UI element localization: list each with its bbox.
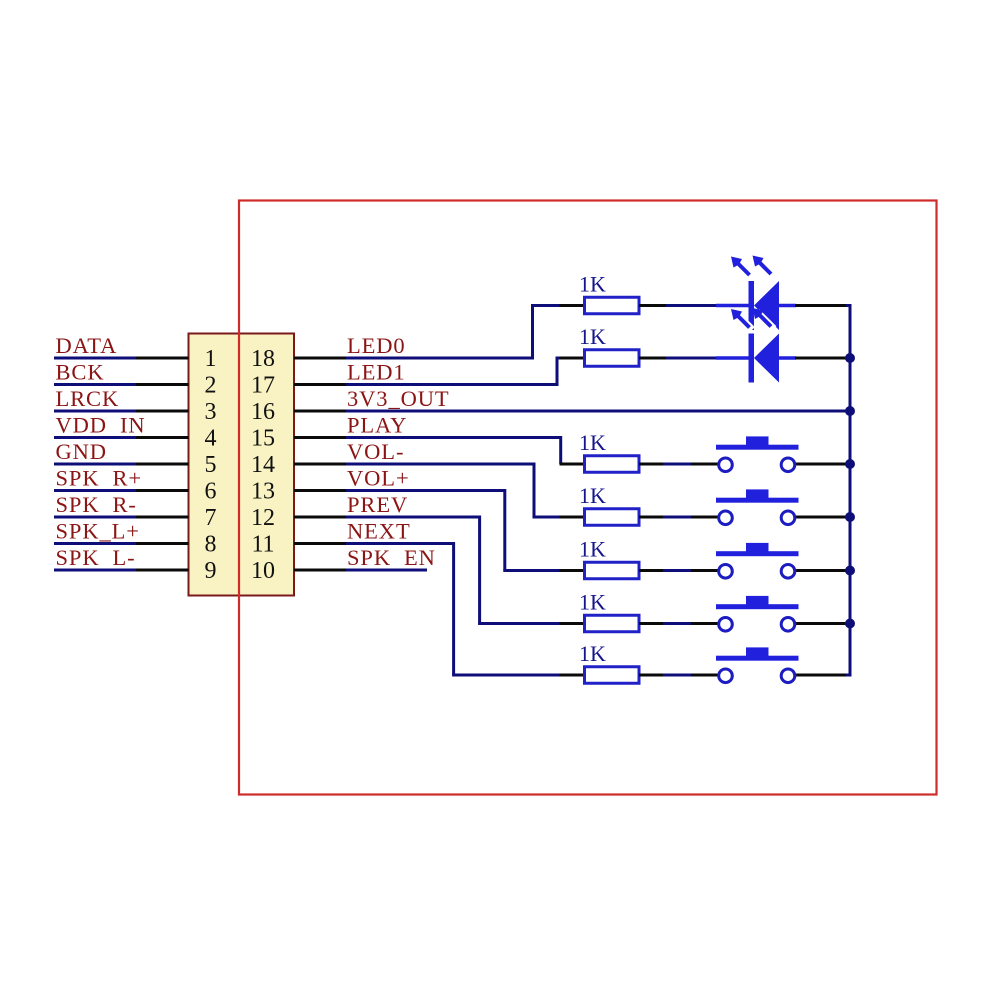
svg-text:DATA: DATA [56, 333, 118, 358]
LED D1 emission arrow 2 [753, 256, 772, 275]
svg-text:18: 18 [251, 346, 275, 372]
wire pin 14 stub (right) [294, 463, 347, 466]
pin number 17 [251, 373, 275, 399]
svg-text:1K: 1K [579, 272, 606, 297]
wire pin 15 stub (right) [294, 436, 347, 439]
LED D2 emission arrow 1 [731, 309, 752, 330]
wire net SPK R+ (left, pin 6) [54, 489, 189, 492]
wire R6 to switch [639, 622, 719, 625]
svg-text:1K: 1K [579, 641, 606, 666]
wire pin 18 stub (right) [294, 357, 347, 360]
wire net SPK_L+ (left, pin 8) [54, 542, 189, 545]
wire switch to bus [795, 674, 849, 677]
wire R4 to switch [639, 516, 719, 519]
pin number 9 [205, 558, 217, 584]
pin number 1 [205, 346, 217, 372]
wire net VOL+ routing [346, 491, 585, 571]
pin number 14 [251, 452, 275, 478]
svg-text:SPK R+: SPK R+ [56, 466, 143, 491]
wire switch to bus [795, 463, 849, 466]
wire R3 to switch [639, 463, 719, 466]
pin number 8 [205, 532, 217, 558]
junction node on bus at y=411 [845, 406, 855, 416]
wire net LED1 routing [346, 358, 585, 385]
wire pin 17 stub (right) [294, 383, 347, 386]
resistor R7 (1K) [579, 641, 639, 683]
svg-text:10: 10 [251, 558, 275, 584]
push button S4 [716, 596, 799, 631]
pin number 13 [251, 479, 275, 505]
svg-text:SPK_L+: SPK_L+ [56, 519, 140, 544]
wire bus (right vertical) [846, 306, 850, 676]
wire pin 10 stub (right) [294, 569, 347, 572]
wire net SPK_EN stub [346, 569, 427, 572]
pin number 18 [251, 346, 275, 372]
svg-text:7: 7 [205, 505, 217, 531]
wire net LRCK (left, pin 3) [54, 410, 189, 413]
wire R1 to LED [639, 304, 749, 307]
wire switch to bus [795, 569, 849, 572]
wire net 3V3_OUT [346, 410, 849, 413]
svg-text:3: 3 [205, 399, 217, 425]
svg-text:3V3_OUT: 3V3_OUT [347, 386, 450, 411]
wire R7 to switch [639, 674, 719, 677]
net label LRCK [56, 386, 120, 411]
pin number 7 [205, 505, 217, 531]
svg-text:VDD IN: VDD IN [56, 413, 146, 438]
svg-text:GND: GND [56, 439, 107, 464]
svg-text:12: 12 [251, 505, 275, 531]
pin number 12 [251, 505, 275, 531]
LED D2 emission arrow 2 [753, 308, 774, 329]
wire net VDD IN (left, pin 4) [54, 436, 189, 439]
svg-text:15: 15 [251, 426, 275, 452]
net label GND [56, 439, 107, 464]
wire R2 to LED [639, 357, 749, 360]
pin number 6 [205, 479, 217, 505]
pin number 16 [251, 399, 275, 425]
svg-text:LED1: LED1 [347, 360, 406, 385]
resistor R4 (1K) [579, 483, 639, 525]
net label PREV [347, 492, 408, 517]
connector J1 body [189, 334, 295, 596]
net label SPK_EN [347, 545, 436, 570]
push button S1 [716, 436, 799, 471]
pin number 4 [205, 426, 217, 452]
pin number 3 [205, 399, 217, 425]
svg-text:SPK EN: SPK EN [347, 545, 436, 570]
net label LED1 [347, 360, 406, 385]
svg-text:1K: 1K [579, 590, 606, 615]
wire LED to bus [779, 356, 849, 359]
junction node on bus at y=358 [845, 353, 855, 363]
pin number 5 [205, 452, 217, 478]
svg-text:14: 14 [251, 452, 275, 478]
svg-text:17: 17 [251, 373, 275, 399]
wire net SPK R- (left, pin 7) [54, 516, 189, 519]
wire net PREV routing [346, 517, 585, 624]
net label VOL+ [347, 466, 410, 491]
pin number 2 [205, 373, 217, 399]
LED D1 [749, 281, 780, 330]
wire switch to bus [795, 516, 849, 519]
svg-text:PLAY: PLAY [347, 413, 407, 438]
pin number 11 [251, 532, 274, 558]
svg-text:1K: 1K [579, 430, 606, 455]
svg-text:LRCK: LRCK [56, 386, 120, 411]
wire net VOL- routing [346, 464, 585, 517]
svg-text:1K: 1K [579, 537, 606, 562]
wire net DATA (left, pin 1) [54, 357, 189, 360]
resistor R2 (1K) [579, 324, 639, 366]
net label SPK_L+ [56, 519, 140, 544]
push button S2 [716, 489, 799, 524]
net label PLAY [347, 413, 407, 438]
net label SPK_R+ [56, 466, 143, 491]
wire R5 to switch [639, 569, 719, 572]
net label VOL- [347, 439, 404, 464]
net label 3V3_OUT [347, 386, 450, 411]
svg-text:5: 5 [205, 452, 217, 478]
wire pin 12 stub (right) [294, 516, 347, 519]
svg-text:1K: 1K [579, 483, 606, 508]
net label VDD_IN [56, 413, 146, 438]
net label SPK_L- [56, 545, 136, 570]
push button S3 [716, 543, 799, 578]
net label NEXT [347, 519, 411, 544]
pin number 10 [251, 558, 275, 584]
net label DATA [56, 333, 118, 358]
wire net PLAY routing [346, 438, 585, 465]
svg-text:VOL-: VOL- [347, 439, 404, 464]
svg-text:11: 11 [251, 532, 274, 558]
net label SPK_R- [56, 492, 137, 517]
wire pin 16 stub (right) [294, 410, 347, 413]
svg-text:BCK: BCK [56, 360, 105, 385]
svg-text:SPK R-: SPK R- [56, 492, 137, 517]
resistor R3 (1K) [579, 430, 639, 472]
wire LED to bus [779, 304, 849, 307]
LED D1 emission arrow 1 [731, 257, 750, 276]
wire net SPK L- (left, pin 9) [54, 569, 189, 572]
svg-text:13: 13 [251, 479, 275, 505]
wire net GND (left, pin 5) [54, 463, 189, 466]
svg-text:16: 16 [251, 399, 275, 425]
wire net LED0 routing [346, 306, 585, 359]
resistor R1 (1K) [579, 272, 639, 314]
svg-text:1: 1 [205, 346, 217, 372]
svg-text:VOL+: VOL+ [347, 466, 410, 491]
svg-text:1K: 1K [579, 324, 606, 349]
junction node on bus at y=464 [845, 459, 855, 469]
wire net BCK (left, pin 2) [54, 383, 189, 386]
svg-text:SPK L-: SPK L- [56, 545, 136, 570]
wire net NEXT routing [346, 544, 585, 676]
net label BCK [56, 360, 105, 385]
wire pin 11 stub (right) [294, 542, 347, 545]
wire switch to bus [795, 622, 849, 625]
wire pin 13 stub (right) [294, 489, 347, 492]
svg-text:8: 8 [205, 532, 217, 558]
junction node on bus at y=570.5 [845, 566, 855, 576]
svg-text:6: 6 [205, 479, 217, 505]
svg-text:LED0: LED0 [347, 333, 406, 358]
svg-text:PREV: PREV [347, 492, 408, 517]
junction node on bus at y=623.5 [845, 619, 855, 629]
LED D2 [749, 334, 780, 383]
svg-text:4: 4 [205, 426, 217, 452]
svg-text:9: 9 [205, 558, 217, 584]
push button S5 [716, 647, 799, 682]
junction node on bus at y=517 [845, 512, 855, 522]
pin number 15 [251, 426, 275, 452]
svg-text:NEXT: NEXT [347, 519, 411, 544]
resistor R5 (1K) [579, 537, 639, 579]
frame (red border rectangle) [239, 201, 937, 795]
net label LED0 [347, 333, 406, 358]
resistor R6 (1K) [579, 590, 639, 632]
svg-text:2: 2 [205, 373, 217, 399]
